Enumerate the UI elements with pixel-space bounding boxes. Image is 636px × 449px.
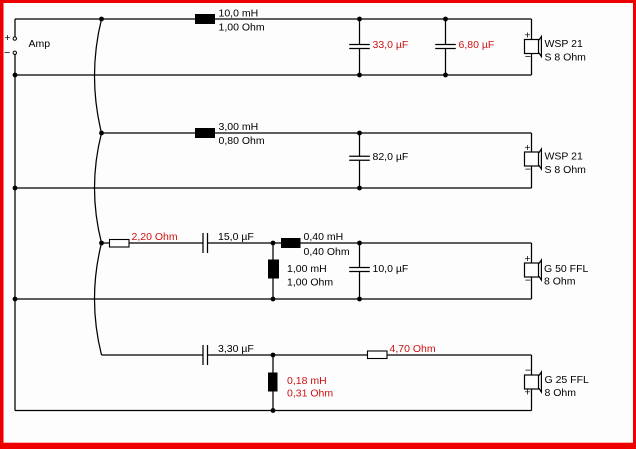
svg-text:−: − [525, 164, 531, 176]
svg-text:−: − [525, 275, 531, 287]
svg-text:2,20 Ohm: 2,20 Ohm [132, 231, 178, 243]
node row1 C1 top [357, 17, 362, 22]
svg-text:−: − [525, 364, 531, 376]
svg-text:8 Ohm: 8 Ohm [544, 276, 576, 288]
svg-text:4,70 Ohm: 4,70 Ohm [390, 343, 436, 355]
speaker SP1 WSP21 [524, 29, 586, 63]
wire row1 return [15, 74, 532, 76]
svg-text:1,00 Ohm: 1,00 Ohm [219, 22, 265, 34]
wire row2 rail [102, 132, 532, 134]
svg-text:0,80 Ohm: 0,80 Ohm [219, 135, 265, 147]
svg-text:0,40 Ohm: 0,40 Ohm [304, 246, 350, 258]
svg-text:S 8 Ohm: S 8 Ohm [545, 52, 587, 64]
resistor R1 2,20 Ohm [110, 240, 130, 248]
node row3 C5 top [357, 241, 362, 246]
node row1 feeder tap [99, 17, 104, 22]
speaker SP2 WSP21 [524, 142, 586, 176]
wire speaker1 feed [531, 19, 533, 40]
node row4 L4 top [271, 353, 276, 358]
svg-text:10,0 mH: 10,0 mH [219, 8, 259, 20]
node row2 return left [13, 186, 18, 191]
wire left negative bus [14, 55, 16, 411]
svg-text:0,18 mH: 0,18 mH [287, 375, 327, 387]
node row3 L3b bottom [271, 297, 276, 302]
node row1 C2 top [443, 17, 448, 22]
wire positive feeder curve [95, 19, 102, 355]
node row2 feeder tap [99, 131, 104, 136]
wire top rail row1 [15, 18, 532, 20]
wire speaker3 feed [531, 243, 533, 263]
node row3 feeder tap [99, 241, 104, 246]
node row1 return left [13, 73, 18, 78]
svg-text:+: + [524, 387, 530, 399]
border frame bottom [0, 443, 636, 449]
capacitor C5 10,0uF branch wires [359, 243, 361, 268]
inductor L2 3,00mH [195, 128, 215, 138]
wire speaker4 feed [531, 355, 533, 375]
capacitor C5 plates [349, 267, 370, 269]
svg-text:3,00 mH: 3,00 mH [219, 121, 259, 133]
capacitor C6 3,30uF plates [202, 345, 204, 365]
svg-text:+: + [4, 32, 10, 44]
inductor L4 0,18mH shunt [268, 373, 278, 392]
svg-text:WSP 21: WSP 21 [545, 151, 583, 163]
capacitor C1 plates [349, 44, 370, 46]
svg-text:0,31 Ohm: 0,31 Ohm [287, 388, 333, 400]
svg-text:−: − [525, 51, 531, 63]
wire row3 rail right segment [208, 242, 532, 244]
svg-text:3,30 µF: 3,30 µF [218, 343, 254, 355]
node row3 return left [13, 297, 18, 302]
inductor L3 shunt branch wires [272, 243, 274, 260]
border frame right [633, 0, 636, 449]
svg-text:+: + [524, 29, 530, 41]
node row2 C3 bottom [357, 186, 362, 191]
svg-text:0,40 mH: 0,40 mH [304, 231, 344, 243]
svg-text:33,0 µF: 33,0 µF [373, 39, 409, 51]
svg-text:6,80 µF: 6,80 µF [459, 39, 495, 51]
svg-text:WSP 21: WSP 21 [545, 38, 583, 50]
speaker SP4 G25FFL [524, 364, 589, 399]
border frame top [0, 0, 636, 3]
capacitor C4 15,0uF plates [202, 233, 204, 253]
node row3 C5 bottom [357, 297, 362, 302]
amp terminal plus [13, 37, 16, 40]
wire bottom bus [15, 410, 532, 412]
node row1 C1 bottom [357, 73, 362, 78]
border frame left [0, 0, 4, 449]
wire row4 rail left segment [102, 354, 204, 356]
resistor R2 4,70 Ohm [368, 351, 388, 359]
svg-text:1,00 mH: 1,00 mH [287, 263, 327, 275]
svg-text:S 8 Ohm: S 8 Ohm [545, 164, 587, 176]
svg-text:82,0 µF: 82,0 µF [373, 151, 409, 163]
svg-text:10,0 µF: 10,0 µF [373, 263, 409, 275]
node row1 C2 bottom [443, 73, 448, 78]
svg-text:−: − [4, 47, 10, 59]
wire row3 rail left segment [102, 242, 204, 244]
node row3 L3b top [271, 241, 276, 246]
svg-text:1,00 Ohm: 1,00 Ohm [287, 277, 333, 289]
svg-text:8 Ohm: 8 Ohm [545, 387, 577, 399]
svg-text:+: + [524, 253, 530, 265]
amp terminal minus [13, 51, 16, 54]
wire amp plus stub [14, 19, 16, 37]
capacitor C2 6,80uF branch wires [445, 19, 447, 45]
svg-text:+: + [524, 142, 530, 154]
svg-text:G 50 FFL: G 50 FFL [544, 263, 589, 275]
inductor L3a 0,40mH series [281, 238, 301, 248]
inductor L3b 1,00mH shunt [268, 260, 279, 279]
wire row3 return [15, 298, 532, 300]
svg-text:Amp: Amp [29, 38, 51, 50]
svg-text:G 25 FFL: G 25 FFL [545, 374, 590, 386]
inductor L1 10,0mH [195, 14, 215, 24]
node row2 C3 top [357, 131, 362, 136]
wire row4 rail right segment [208, 354, 532, 356]
capacitor C1 33,0uF branch wires [359, 19, 361, 45]
svg-text:15,0 µF: 15,0 µF [218, 231, 254, 243]
node row4 L4 bottom [271, 408, 276, 413]
capacitor C2 plates [435, 44, 456, 46]
capacitor C3 plates [349, 155, 370, 157]
capacitor C3 82,0uF branch wires [359, 133, 361, 156]
speaker SP3 G50FFL [524, 253, 588, 288]
wire speaker2 feed [531, 133, 533, 152]
inductor L4 shunt branch wires [272, 355, 274, 373]
wire row2 return [15, 187, 532, 189]
